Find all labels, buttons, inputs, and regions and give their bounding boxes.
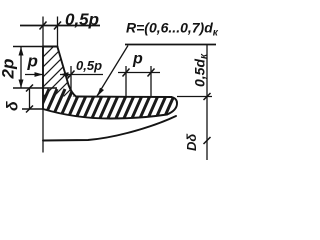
inner bottom big curve [43, 116, 176, 141]
2p extension top/bottom [13, 46, 43, 48]
p-left dim [25, 74, 43, 76]
plate bottom [43, 109, 167, 119]
2p arrows [19, 47, 24, 56]
right vertical dim [206, 45, 208, 161]
svg-text:Dδ: Dδ [184, 134, 199, 151]
0,5p mid arrow pointing left [60, 72, 69, 77]
svg-text:2p: 2p [0, 59, 18, 80]
svg-text:p: p [27, 52, 38, 71]
svg-text:0,5p: 0,5p [76, 58, 102, 73]
plate right nose [167, 97, 177, 115]
leader arrow [97, 88, 104, 97]
arrows [19, 47, 105, 97]
top dim 0,5p [20, 25, 100, 27]
plate top [76, 96, 172, 99]
R leader [97, 46, 128, 97]
hatching neck (thin) [15, 35, 110, 130]
x43 continuation [42, 109, 44, 153]
R underline [125, 44, 216, 46]
thin lines: extensions, dims [13, 17, 216, 161]
ext line from nose to right dim [177, 96, 212, 98]
svg-text:δ: δ [5, 101, 22, 111]
slashes [40, 22, 47, 30]
p-right dim [118, 72, 160, 74]
0,5p mid dim [60, 74, 103, 76]
hatching band (bold) [33, 89, 185, 125]
delta dim [22, 108, 43, 110]
neck left wall / plate left edge [42, 47, 44, 110]
svg-text:0,5p: 0,5p [65, 10, 99, 29]
2p dim line [20, 47, 22, 88]
p-left arrow tip at x=43 [35, 72, 44, 77]
svg-text:p: p [132, 51, 143, 68]
neck right wall + fillet R [58, 47, 77, 97]
part outline [43, 47, 177, 141]
neck top [43, 46, 58, 48]
